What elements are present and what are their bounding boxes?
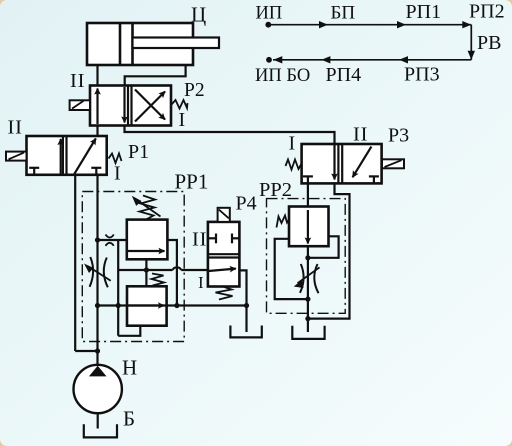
wire P4 outlet (239, 270, 246, 332)
orifice on pilot line (106, 235, 114, 238)
lower box of PP1 (127, 286, 167, 325)
reducer internal down arrow (307, 210, 309, 244)
wire top line (268, 24, 471, 26)
wire main line P2 to P1 (96, 126, 98, 137)
P3 left cell blocked port T (307, 176, 309, 183)
svg-text:Н: Н (122, 356, 137, 380)
P3 right cell diagonal arrow (353, 147, 372, 178)
valve P3 body (302, 144, 382, 183)
spring small above lower box (152, 274, 165, 286)
P4 pilot actuator box (218, 208, 230, 222)
P3 left cell down arrow (333, 144, 335, 180)
wire left bypass bottom (75, 350, 98, 352)
piston (119, 23, 122, 65)
arrow to РП1 (397, 21, 406, 28)
arrow to РП2 (462, 21, 471, 28)
svg-text:II: II (353, 124, 368, 146)
wire pump to tank (97, 413, 99, 428)
P1 right cell diagonal arrow (74, 139, 96, 175)
svg-text:ИП БО: ИП БО (255, 66, 310, 86)
PP1 dash-dot frame (82, 192, 184, 342)
wire right vertical РВ (470, 25, 472, 60)
wire horizontal to P4 with hop (118, 267, 208, 270)
svg-text:РР1: РР1 (175, 170, 209, 194)
node end dot (266, 57, 272, 63)
wire reducer right pilot (308, 236, 339, 257)
svg-text:I: I (114, 163, 121, 185)
P1 spring (109, 154, 122, 164)
svg-text:РВ: РВ (477, 32, 501, 54)
node junction below reducer (305, 255, 310, 260)
wire cylinder right port step (125, 65, 186, 86)
wire bottom line (273, 59, 471, 61)
P2 right cell cross arrows (135, 92, 165, 122)
node pump junction (95, 348, 100, 353)
wire drain loop bottom (118, 326, 140, 336)
arrow to ИП БО (273, 56, 282, 63)
relief valve box (127, 220, 168, 260)
wire P2 to P3 (125, 126, 335, 145)
P3 spring left (286, 160, 302, 170)
tank Б (84, 424, 117, 437)
P1 left cell up arrow (60, 139, 62, 174)
P1 pilot actuator box (6, 152, 27, 161)
svg-text:II: II (192, 229, 207, 251)
arrow to РП3 (399, 56, 408, 63)
pump triangle (89, 366, 107, 377)
wire P3 middle port to right drain (308, 183, 350, 318)
reducer box (289, 207, 329, 247)
tank under PP2 (292, 326, 324, 339)
svg-text:РР2: РР2 (259, 179, 292, 201)
valve P2 body (90, 86, 171, 126)
arrow to РП4 (321, 56, 330, 63)
throttle on main vertical (90, 257, 94, 287)
node main-pilot junction (95, 237, 100, 242)
node junction below throttle (305, 297, 310, 302)
svg-text:РП3: РП3 (404, 64, 440, 86)
wire left feedback vertical (117, 240, 119, 336)
node tank junction (305, 316, 310, 321)
svg-text:I: I (179, 109, 186, 131)
wire left bypass vertical (74, 175, 76, 351)
wire main vertical P1 to pump (96, 175, 98, 367)
wire pilot line to relief valve (98, 239, 127, 241)
P4 bottom cell arrow (209, 269, 236, 271)
wire relief right pilot (167, 240, 177, 306)
svg-text:I: I (289, 133, 296, 155)
svg-text:Ц: Ц (191, 3, 206, 27)
valve P1 body (27, 136, 107, 175)
throttle PP2 (300, 264, 304, 293)
svg-text:Р3: Р3 (388, 125, 409, 147)
svg-text:БП: БП (331, 3, 356, 24)
node bottom junctions (95, 303, 100, 308)
arrow to БП (319, 21, 328, 28)
P4 top cell blocked ports (208, 237, 216, 239)
wire P3 left port down (307, 183, 309, 332)
svg-text:II: II (8, 117, 23, 139)
arrow down РВ (468, 51, 475, 60)
relief valve internal arrow (128, 250, 165, 252)
svg-text:ИП: ИП (256, 4, 283, 24)
svg-text:II: II (70, 70, 85, 92)
P1 right cell blocked port T (95, 168, 97, 175)
PP2 dash-dot frame (267, 199, 346, 314)
lower box internal arrow (128, 304, 164, 306)
P2 left cell up arrow (96, 89, 98, 125)
cylinder body (87, 23, 193, 65)
svg-text:РП1: РП1 (406, 1, 442, 23)
svg-text:РП4: РП4 (326, 64, 362, 86)
svg-text:Б: Б (123, 407, 135, 431)
wire cylinder left port (96, 65, 98, 86)
valve P4 body (208, 222, 240, 287)
tank under P4 (230, 326, 261, 338)
P1 left cell blocked port T (33, 168, 35, 175)
wire reducer left feedback (275, 239, 308, 299)
wire relief drain down (145, 259, 147, 286)
piston rod (133, 38, 220, 49)
P2 spring (172, 100, 188, 109)
reducer spring left (277, 216, 290, 228)
P2 pilot actuator box (70, 100, 90, 110)
P3 pilot actuator box (382, 159, 404, 168)
node start dot (265, 22, 271, 28)
svg-text:РП2: РП2 (469, 1, 505, 23)
P4 spring bottom (216, 287, 233, 300)
svg-text:I: I (198, 273, 204, 292)
svg-text:Р4: Р4 (236, 193, 257, 215)
svg-text:Р2: Р2 (184, 80, 205, 101)
svg-text:Р1: Р1 (128, 141, 149, 163)
pump circle (74, 365, 122, 413)
wire bottom main line (98, 304, 247, 306)
relief valve spring with arrow (140, 196, 156, 220)
P2 left cell down arrow (123, 87, 125, 123)
P3 right cell blocked port T (373, 176, 375, 183)
node relief drain junction (144, 267, 149, 272)
